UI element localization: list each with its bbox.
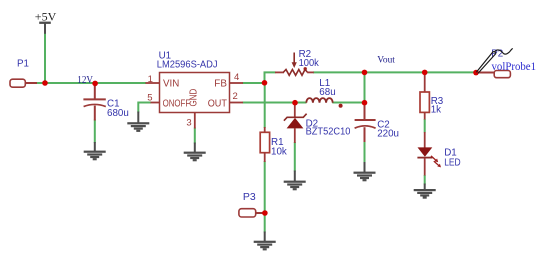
svg-text:3: 3: [186, 117, 191, 128]
wiper arrow of R2: [293, 53, 295, 64]
wire: Vout node to R3 node: [364, 71, 426, 73]
wire: main input row P1 to U1 VIN: [36, 82, 146, 84]
pin dot of L1: [339, 104, 343, 108]
triangle: [287, 118, 304, 128]
wire: R3 node to probe point: [424, 71, 477, 73]
svg-text:5: 5: [147, 93, 152, 104]
LED D1: [417, 132, 441, 176]
svg-text:680u: 680u: [107, 108, 129, 119]
junction dot probe point: [473, 70, 479, 76]
zener diode D2 BZT52C10: [284, 104, 307, 143]
wire: R2 right to Vout node: [313, 71, 366, 73]
wire: L1 to C2 node: [332, 102, 364, 104]
wire: ONOFF pin to ground branch: [138, 103, 151, 113]
ground for C2: [354, 162, 376, 181]
junction dot C2 node: [362, 100, 368, 106]
zener cathode bar with bent ends: [284, 114, 307, 121]
svg-text:GND: GND: [188, 88, 200, 106]
capacitor C2 220u: [355, 104, 376, 142]
svg-text:ONOFF: ONOFF: [163, 98, 191, 109]
svg-text:OUT: OUT: [208, 98, 227, 109]
svg-text:VIN: VIN: [163, 79, 179, 90]
svg-text:10k: 10k: [271, 146, 287, 157]
svg-text:BZT52C10: BZT52C10: [306, 127, 351, 138]
junction dot Vout top: [362, 70, 368, 76]
svg-text:12V: 12V: [77, 75, 93, 86]
wire: D2 node to L1: [295, 102, 307, 104]
pin 1 VIN stub: [146, 82, 160, 84]
inductor L1 68u: [306, 98, 342, 108]
ground for D2: [284, 171, 306, 191]
resistor R2 (variable, 100k): [275, 53, 314, 76]
junction dot FB node: [262, 80, 268, 86]
LED emission arrows: [431, 156, 436, 161]
svg-text:P3: P3: [243, 191, 256, 203]
wire: OUT pin to D2 node: [243, 102, 296, 104]
pin 4 FB stub: [230, 82, 244, 84]
pin 2 OUT stub: [230, 102, 244, 104]
wire: Vout column down to C2 node: [364, 72, 366, 103]
svg-text:2: 2: [233, 91, 238, 102]
wire: C1 bottom to ground: [94, 120, 96, 144]
junction dot P1/+5V: [42, 80, 48, 86]
svg-text:68u: 68u: [319, 87, 335, 98]
svg-text:P1: P1: [17, 59, 29, 70]
ground for D1: [414, 184, 436, 199]
wire: D2 anode to ground: [294, 142, 296, 172]
wire: R1 down through P3 node to ground: [264, 161, 266, 233]
svg-text:+5V: +5V: [35, 10, 57, 24]
wire: R3 bottom to D1: [424, 119, 426, 133]
svg-text:100k: 100k: [299, 58, 319, 69]
ground for ONOFF pin: [127, 112, 149, 132]
wire: D1 bottom to ground: [424, 175, 426, 185]
resistor R1 10k: [260, 127, 269, 162]
svg-text:1: 1: [148, 74, 153, 85]
svg-text:Vout: Vout: [377, 55, 395, 65]
wire: U1 GND pin down: [194, 128, 196, 144]
pin 3 GND stub: [194, 113, 196, 129]
connector P2: [477, 71, 510, 78]
wire: FB pin to node: [243, 82, 266, 84]
pin dot of R2: [304, 67, 307, 70]
wire: C2 bottom to ground: [364, 142, 366, 164]
capacitor C1: [83, 85, 105, 121]
svg-text:volProbe1: volProbe1: [492, 61, 537, 73]
probe volProbe1: [476, 49, 513, 74]
svg-text:4: 4: [234, 72, 239, 83]
svg-text:LM2596S-ADJ: LM2596S-ADJ: [157, 60, 218, 71]
op IC U1 LM2596S-ADJ: [146, 73, 244, 129]
wire: FB node up and right to R2: [265, 72, 276, 84]
ground for U1 GND pin: [184, 143, 206, 162]
svg-text:FB: FB: [214, 79, 227, 90]
junction dot 12V/C1: [92, 81, 98, 87]
junction dot P3: [262, 210, 268, 216]
connector P3: [239, 209, 263, 217]
pin 5 ONOFF stub: [151, 102, 160, 104]
wire: +5V vertical drop: [44, 33, 46, 83]
junction dot R3 top: [422, 70, 428, 76]
ground for P3: [254, 232, 276, 251]
junction dot D2/OUT node: [292, 100, 298, 106]
svg-text:LED: LED: [444, 157, 461, 168]
wire: FB node down to R1: [264, 83, 266, 128]
connector P1: [10, 79, 37, 87]
power +5V: [39, 22, 51, 34]
svg-text:1k: 1k: [431, 105, 441, 116]
ground for C1: [84, 142, 106, 160]
svg-text:220u: 220u: [377, 129, 399, 140]
resistor R3 1k: [420, 73, 429, 120]
